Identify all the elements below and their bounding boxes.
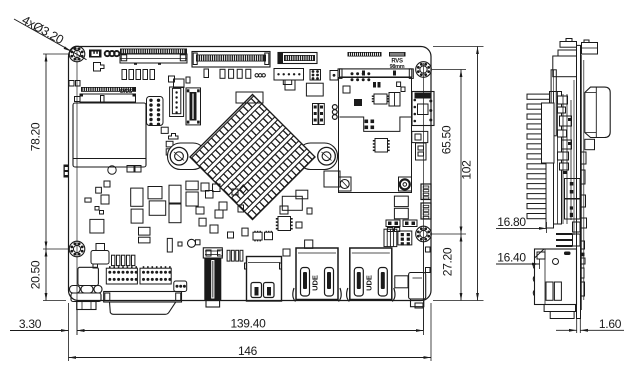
connector J6 5-pin wafer bbox=[274, 69, 304, 81]
diode D2 (diamond) bbox=[240, 185, 247, 193]
capacitor bank C11-C15 bbox=[112, 255, 115, 265]
pads P4 bbox=[387, 228, 393, 232]
connector J31 2-pad a bbox=[386, 220, 400, 227]
component SC20 bbox=[90, 219, 104, 233]
part U15 bbox=[306, 83, 323, 96]
extension line board top right bbox=[433, 46, 484, 48]
svg-text:UDE: UDE bbox=[311, 275, 320, 291]
DC power jack J21 bbox=[78, 267, 99, 285]
extension line board right bottom bbox=[430, 303, 432, 361]
extension line hole-center bottom bbox=[76, 310, 78, 335]
component SC29 bbox=[242, 228, 248, 236]
dimension 1.60 line bbox=[556, 329, 577, 331]
connector J1 small power (black) bbox=[89, 50, 102, 58]
connector J15 vertical bbox=[416, 143, 427, 160]
svg-text:3.30: 3.30 bbox=[19, 317, 42, 331]
component SC23 bbox=[139, 227, 151, 235]
svg-text:146: 146 bbox=[238, 344, 258, 358]
HDMI connector J26 bbox=[203, 248, 222, 258]
side: heatsink backplate bbox=[550, 92, 562, 225]
connector J16 left of card bbox=[330, 71, 338, 81]
side: top-left step bbox=[558, 50, 577, 56]
svg-text:27.20: 27.20 bbox=[441, 247, 455, 276]
chip U22 bbox=[324, 171, 340, 187]
extension lines PCB thickness bbox=[576, 319, 578, 334]
side: pin leads bbox=[556, 233, 573, 235]
side: USB stack upper box bbox=[565, 179, 581, 199]
dimension 16.80 line bbox=[496, 227, 547, 229]
diode pair D1 bbox=[373, 82, 376, 88]
USB stack J28 bbox=[296, 248, 338, 300]
component SC5 bbox=[131, 188, 143, 206]
dimension 20.50 line bbox=[45, 249, 47, 301]
component SC33 bbox=[280, 206, 288, 214]
board outline (top view PCB 146x102) bbox=[69, 47, 432, 301]
side: LAN jack block bbox=[535, 249, 577, 305]
heatsink screw right bbox=[318, 147, 336, 165]
dimension 78.20 line bbox=[45, 54, 47, 249]
chip U18 (SOIC) bbox=[374, 94, 387, 104]
part U14 bbox=[285, 80, 295, 90]
component SC16 bbox=[196, 207, 204, 214]
header J18 3-pin b bbox=[319, 104, 325, 125]
connector J14 bbox=[412, 131, 428, 142]
VGA connector J25 D-sub shell bbox=[110, 302, 176, 314]
parts U17 bbox=[397, 82, 401, 87]
connector J33 box with stripes bbox=[384, 229, 397, 246]
chip U20 bbox=[354, 99, 362, 106]
svg-text:102: 102 bbox=[460, 160, 474, 180]
component SC19 bbox=[210, 225, 218, 233]
header J22 2x7 pin bbox=[106, 268, 137, 284]
VGA connector J25 body bbox=[104, 292, 182, 303]
dimension 139.40 line bbox=[77, 330, 424, 332]
component SC32 bbox=[296, 190, 308, 199]
connector J13 USB3 right-edge (black) bbox=[412, 92, 434, 126]
small parts top-left bbox=[69, 81, 74, 87]
mini-PCIe screw boss right bbox=[399, 177, 412, 191]
pad C6 bbox=[204, 69, 209, 78]
extension line hole-center bottom right bbox=[423, 240, 425, 335]
dimension 27.20 line bbox=[460, 234, 462, 301]
connector J5 fine-pitch strip b bbox=[389, 52, 406, 57]
component SC3 bbox=[85, 198, 91, 202]
part U16 bbox=[343, 86, 350, 93]
mounting hole H3 bottom-left 3.20mm bbox=[69, 241, 85, 257]
extension line right top hole bbox=[432, 69, 466, 71]
chip U26 (SOIC-8 flash) bbox=[278, 217, 291, 231]
leader line for hole callout bbox=[14, 19, 87, 60]
side: top connector right bbox=[582, 43, 598, 55]
centerline through right holes bbox=[423, 63, 425, 330]
svg-text:16.40: 16.40 bbox=[497, 251, 526, 265]
header J9 2x6 bbox=[147, 97, 164, 126]
chip U21 (SOIC-8) bbox=[375, 139, 388, 153]
component SC24 bbox=[139, 237, 151, 243]
side: right edge strip bbox=[580, 55, 582, 310]
side view PCB (1.60mm thick) bbox=[577, 45, 581, 318]
chip U25 with pins bbox=[265, 232, 273, 240]
header J23 2x7 pin bbox=[140, 268, 171, 284]
component U28 above heatsink apex bbox=[236, 92, 263, 103]
mounting hole H4 bottom-right 3.20mm bbox=[416, 226, 432, 242]
component SC12 bbox=[186, 192, 198, 206]
component SC22 bbox=[100, 211, 104, 215]
svg-text:78.20: 78.20 bbox=[29, 122, 43, 151]
connector J8 bracket bbox=[80, 94, 136, 102]
extension line left board bottom bbox=[43, 300, 66, 302]
heatsink mounting ear right bbox=[298, 143, 338, 170]
connector J24 3-pin bbox=[174, 281, 187, 292]
connector J36 vertical 4-slot b bbox=[421, 203, 431, 219]
pads P3 vertical circles bbox=[332, 105, 337, 110]
side: VGA below-board block bbox=[544, 305, 575, 312]
mini-PCIe connector CN2 bar bbox=[340, 69, 412, 77]
connector J20 DC-in tab box bbox=[91, 251, 109, 265]
header J17 3-pin a bbox=[313, 104, 319, 125]
chip U24 with pins bbox=[253, 232, 262, 240]
switch SW1 at left edge (black) bbox=[64, 165, 70, 178]
side: right small protrusions bbox=[581, 152, 587, 164]
component SC34 bbox=[296, 222, 302, 228]
mini-PCIe card outline bbox=[339, 78, 412, 193]
extension line board left bottom bbox=[68, 303, 70, 361]
capacitors C16-C19 bbox=[227, 250, 230, 261]
connector J4 FFC bbox=[278, 53, 317, 64]
small part bottom bbox=[415, 303, 423, 308]
side: thin bracket bar bbox=[551, 70, 556, 136]
mini-PCIe latch outline bbox=[340, 117, 412, 131]
big part U23 bbox=[282, 196, 302, 210]
dimension 146 line bbox=[69, 357, 432, 359]
side: bracket overlay B (white) bbox=[546, 163, 554, 228]
mini-PCIe screw boss left bbox=[339, 177, 352, 191]
component SC13 bbox=[201, 183, 209, 191]
component SC2 bbox=[104, 181, 110, 187]
component SC11 bbox=[186, 181, 198, 190]
side: mid-column component boxes bbox=[558, 96, 568, 104]
svg-text:65.50: 65.50 bbox=[440, 125, 454, 154]
component SC21 bbox=[95, 207, 99, 211]
dimension 16.40 line bbox=[496, 263, 540, 265]
component SC7 bbox=[149, 201, 166, 215]
pads P1 three circles bbox=[105, 51, 110, 56]
component SC31 bbox=[219, 202, 227, 210]
side: box below VGA bbox=[585, 139, 595, 149]
side: bracket overlay A (white) bbox=[542, 103, 555, 163]
component SC30 bbox=[238, 205, 244, 212]
extension line right bottom hole bbox=[430, 233, 466, 235]
component SC39 bbox=[232, 189, 238, 195]
small part bbox=[75, 97, 81, 102]
component SC17 bbox=[215, 210, 223, 218]
dimension 102 line bbox=[477, 47, 479, 301]
capacitor bank C1-C5 (five pads) bbox=[122, 70, 127, 80]
component SC8 bbox=[131, 209, 143, 223]
connector J32 2-pad b bbox=[403, 220, 417, 227]
dimension 3.30 line bbox=[10, 330, 69, 332]
component U10 (notch shape) bbox=[94, 63, 105, 72]
component SC4 bbox=[101, 195, 109, 204]
side: top cap component bbox=[560, 42, 577, 48]
side: VGA D-sub protrusion bbox=[585, 87, 610, 137]
component SC38 bbox=[228, 232, 234, 238]
side: heatsink fins bbox=[527, 94, 550, 99]
component SC14 bbox=[206, 191, 214, 199]
audio jack J30 bbox=[395, 276, 408, 288]
connector J2 LVDS panel (fine pitch) bbox=[120, 49, 187, 55]
small part cluster U11 bbox=[169, 76, 175, 82]
side: under-heatsink verticals bbox=[562, 94, 564, 224]
extension line left bottom hole bbox=[43, 248, 70, 250]
dimension 65.50 line bbox=[460, 70, 462, 235]
parts U27 white boxes bbox=[394, 196, 408, 207]
header J34 2x3 bbox=[398, 231, 412, 245]
connector J8 LVDS (hatched bar) bbox=[81, 87, 136, 92]
USB connector J27 single bbox=[247, 257, 282, 302]
svg-text:1.60: 1.60 bbox=[599, 317, 622, 331]
capacitor bank C7-C10 bbox=[220, 69, 225, 78]
parts at right edge line bbox=[426, 247, 431, 252]
small part U13 (arrow shape) bbox=[169, 134, 179, 140]
mounting hole H2 top-right 3.20mm bbox=[416, 62, 432, 78]
component SC37 bbox=[307, 208, 312, 214]
header J19 2x2 bbox=[365, 120, 369, 124]
heatsink screw left bbox=[170, 147, 188, 165]
component SC35 bbox=[305, 240, 313, 248]
component SC10 bbox=[169, 204, 181, 223]
extension line left top hole bbox=[43, 53, 70, 55]
mounting hole H1 top-left 3.20mm bbox=[69, 46, 85, 62]
component SC15 bbox=[213, 184, 221, 192]
resistor pair R1 R2 bbox=[166, 141, 173, 147]
SD card slot CN1 bbox=[73, 103, 146, 167]
connector J5 fine-pitch strip a bbox=[348, 52, 382, 57]
USB stack J29 bbox=[350, 248, 392, 300]
side: USB stack lower box bbox=[565, 199, 581, 219]
component SC26 bbox=[178, 242, 182, 246]
component SC36 bbox=[283, 249, 290, 256]
component SC1 bbox=[96, 187, 102, 193]
inductor L1 bbox=[188, 239, 196, 247]
extension line board bottom right bbox=[433, 300, 484, 302]
component SC6 bbox=[148, 187, 162, 199]
connector J11 eDP vertical bbox=[186, 88, 201, 125]
parts U19 bbox=[389, 93, 400, 107]
small part U12 bbox=[161, 127, 168, 133]
side: connector block top-left bbox=[553, 56, 577, 77]
component SC27 bbox=[206, 250, 211, 256]
svg-text:20.50: 20.50 bbox=[29, 260, 43, 289]
svg-text:139.40: 139.40 bbox=[231, 317, 267, 331]
component SC28 bbox=[218, 250, 223, 256]
header J7 2x3 bbox=[310, 70, 321, 81]
connector J3 board-to-board (pin comb) bbox=[192, 52, 270, 68]
pads P2 three small circles bbox=[255, 74, 258, 77]
svg-text:16.80: 16.80 bbox=[497, 215, 526, 229]
side: small blocks right of leads bbox=[573, 222, 581, 232]
connector J10 5-pin vertical bbox=[170, 87, 184, 117]
component SC18 bbox=[199, 218, 206, 226]
header J12 2x4 dots bbox=[351, 72, 354, 75]
component SC25 bbox=[167, 238, 172, 252]
heatsink mounting ear left bbox=[168, 143, 207, 170]
centerline through left holes bbox=[76, 48, 78, 335]
svg-text:UDE: UDE bbox=[364, 275, 373, 291]
component SC9 bbox=[169, 185, 181, 203]
connector J35 vertical 4-slot a bbox=[421, 184, 431, 200]
